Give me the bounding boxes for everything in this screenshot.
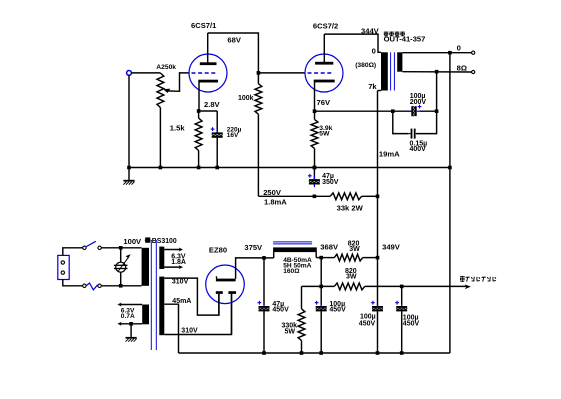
label 100k (238, 95, 254, 102)
node 0.7A ground junction (129, 322, 133, 326)
switch SW1b contact 1 (83, 284, 86, 287)
node jack ground junction (127, 166, 131, 170)
label 349V (382, 242, 401, 251)
node secondary ground junction (448, 166, 452, 170)
node lamp top (119, 246, 123, 250)
terminal 0 (472, 51, 475, 54)
wire cathode to C1 (199, 111, 218, 132)
choke lead left (264, 252, 274, 258)
capacitor C4 47u 350V (308, 168, 320, 188)
node pot bottom on ground rail (159, 166, 163, 170)
AC plug pin 1 (61, 261, 64, 264)
capacitor C1 220u 16V (211, 127, 223, 140)
wire C6 to ground (320, 311, 322, 353)
label 19mA (379, 149, 400, 158)
label 68V (227, 36, 241, 45)
ground (123, 168, 134, 185)
U1 plate (200, 62, 217, 65)
capacitor C2 100u 200V (408, 105, 421, 117)
V3 cathode lead (236, 258, 264, 279)
AC plug pin 2 (61, 271, 64, 274)
label 3W first (349, 246, 360, 253)
wire secondary 0 line (402, 52, 471, 54)
choke lead right (316, 252, 321, 258)
label 1.5k (170, 124, 186, 133)
node secondary 0 junction (448, 51, 452, 55)
svg-text:368V: 368V (320, 243, 339, 252)
svg-text:200V: 200V (410, 99, 427, 106)
svg-text:0.7A: 0.7A (121, 313, 135, 320)
wire U1 anode to 68V node (208, 33, 259, 73)
pot wiper arrowhead (163, 89, 170, 93)
svg-text:400V: 400V (410, 146, 427, 153)
resistor R 820 3W first (321, 254, 377, 261)
label 5H 50mA (283, 263, 311, 270)
triode U1 6CS7/1 envelope (189, 54, 227, 92)
svg-text:450V: 450V (403, 321, 420, 328)
label 1.8A (171, 259, 186, 266)
label 450V c7 (359, 320, 376, 327)
resistor 3.9k 5W (311, 111, 318, 167)
label 6.3V 0.7A (121, 307, 135, 314)
capacitor C6 100u 450V (315, 286, 327, 314)
label EZ80 (209, 246, 227, 255)
resistor 330k 5W (298, 286, 305, 353)
label 16V (227, 132, 239, 139)
node C1 bottom (215, 166, 219, 170)
wire HV bottom tap 310V (164, 294, 231, 335)
PT 0.7A stub bottom (117, 322, 142, 326)
V3 plate right (228, 291, 236, 294)
svg-text:19mA: 19mA (379, 149, 400, 158)
V3 cathode (216, 276, 236, 281)
OPT secondary winding (397, 52, 402, 71)
label 76V (317, 98, 331, 107)
svg-text:33k 2W: 33k 2W (337, 204, 364, 213)
label 400V (410, 146, 427, 153)
svg-text:16V: 16V (227, 132, 239, 139)
U1 cathode lead (198, 82, 200, 111)
label 33k 2W (337, 204, 364, 213)
wire HV top tap 310V (164, 278, 219, 315)
svg-text:160Ω: 160Ω (283, 268, 300, 275)
svg-text:5W: 5W (319, 131, 330, 138)
PT heater stub top (164, 248, 183, 252)
node C5 bottom (262, 351, 266, 355)
svg-text:250V: 250V (263, 188, 282, 197)
label 47u-350 (322, 173, 334, 180)
node 47u350V top (313, 166, 317, 170)
PT primary winding (142, 248, 149, 286)
label BS3100 (145, 237, 177, 245)
wire C5 to ground (263, 311, 265, 353)
svg-text:1.8mA: 1.8mA (264, 198, 287, 207)
svg-text:349V: 349V (382, 242, 401, 251)
U1 cathode (198, 80, 218, 83)
choke winding (273, 247, 317, 252)
U2 grid (dashed) (308, 72, 334, 74)
svg-text:45mA: 45mA (172, 298, 191, 305)
label 450V c8 (403, 321, 420, 328)
node 368V lower junction (319, 285, 323, 289)
label 100u c7 (360, 314, 376, 321)
label 200V (410, 99, 427, 106)
label 160ohm (283, 268, 300, 275)
label 4B-50mA (283, 257, 312, 264)
svg-text:6CS7/2: 6CS7/2 (313, 21, 338, 30)
node C2 right junction (435, 109, 439, 113)
lamp arrow (118, 254, 131, 271)
node C5 top (262, 256, 266, 260)
svg-text:3W: 3W (346, 273, 357, 280)
wire 8ohm tap vertical (436, 72, 438, 112)
svg-text:OUT-41-357: OUT-41-357 (384, 35, 426, 44)
switch SW1a contact 2 (98, 246, 101, 249)
label 5W 330k (285, 329, 296, 336)
svg-text:100V: 100V (123, 237, 142, 246)
svg-text:EZ80: EZ80 (209, 246, 227, 255)
svg-text:0: 0 (457, 43, 461, 52)
label 368V (320, 243, 339, 252)
svg-text:BS3100: BS3100 (152, 238, 177, 245)
label 2.8V (204, 100, 221, 109)
node 3.9k bottom (313, 166, 317, 170)
PT core (151, 240, 156, 350)
svg-text:5W: 5W (285, 329, 296, 336)
wire HV center tap (164, 304, 178, 353)
svg-text:344V: 344V (361, 27, 380, 36)
PT HV winding (159, 277, 164, 336)
node 1.5k bottom (197, 166, 201, 170)
PT 6.3V 0.7A winding (142, 305, 149, 325)
switch SW1b contact 2 (98, 284, 101, 287)
label 7k (368, 82, 377, 91)
label 6CS7/2 (313, 21, 338, 30)
node C6 bottom (319, 351, 323, 355)
svg-text:68V: 68V (227, 36, 241, 45)
label 0.7A (121, 313, 135, 320)
wire bottom ground rail (179, 352, 450, 354)
resistor 1.5k (195, 111, 202, 168)
svg-text:76V: 76V (317, 98, 331, 107)
label 1.8mA (264, 198, 287, 207)
wire C2 to 8ohm tap (419, 110, 436, 112)
label 250V (263, 188, 282, 197)
wire OPT primary bottom to B+ line (378, 90, 382, 92)
node other channel cap junction (400, 285, 404, 289)
label 47u-450 (272, 301, 284, 308)
label 100u (410, 93, 426, 100)
wire 368V to 820 second (302, 285, 335, 287)
label 220u (227, 126, 242, 133)
label 0 (primary) (372, 47, 376, 56)
switch SW1a lever (86, 241, 96, 246)
wire B+ 349V vertical (377, 91, 379, 307)
U1 plate lead (207, 33, 209, 63)
svg-text:A250k: A250k (156, 64, 176, 71)
wire C8 to ground (401, 311, 403, 353)
OPT core (391, 52, 395, 90)
label 450V c6 (329, 307, 346, 314)
PT heater winding 6.3V 1.8A (159, 247, 164, 269)
svg-text:350V: 350V (322, 179, 339, 186)
svg-text:(380Ω): (380Ω) (355, 62, 376, 69)
rectifier V3 EZ80 envelope (206, 265, 245, 304)
svg-text:310V: 310V (172, 279, 189, 286)
U1 grid (dashed) (192, 72, 218, 74)
switch SW1b lever (86, 283, 97, 290)
node 8ohm junction (435, 70, 439, 74)
node U1 cathode junction (197, 109, 201, 113)
resistor R 820 3W second (334, 283, 401, 290)
choke core (273, 242, 312, 244)
label other channel (460, 276, 496, 282)
wire U2 anode to OPT (324, 34, 381, 52)
capacitor C7 100u 450V (371, 301, 383, 314)
wire secondary 8ohm line (402, 71, 471, 73)
label maker Kasuga (384, 32, 405, 36)
node C2 left junction (391, 109, 395, 113)
label 6.3V heater (171, 253, 186, 260)
wire secondary 0 to ground (449, 53, 451, 168)
wire 33k to 349V (362, 195, 378, 197)
svg-text:6CS7/1: 6CS7/1 (191, 21, 217, 30)
node C8 bottom (400, 351, 404, 355)
svg-text:1.8A: 1.8A (171, 259, 186, 266)
svg-text:450V: 450V (359, 320, 376, 327)
label 5W (319, 131, 330, 138)
wire to ground 2 (130, 324, 132, 337)
svg-text:7k: 7k (368, 82, 377, 91)
wire switch to lamp node bottom (101, 285, 141, 287)
resistor 100k (255, 73, 262, 196)
wire switch to lamp node top (101, 247, 141, 249)
wire pot wiper to grid (166, 73, 189, 91)
label 310V bottom (181, 327, 198, 334)
OPT primary winding (381, 52, 388, 90)
wire 368V vertical (320, 258, 322, 287)
label 6CS7/1 (191, 21, 217, 30)
svg-text:8Ω: 8Ω (457, 63, 467, 72)
wire C7 to ground (377, 311, 379, 353)
PT 0.7A stub top (117, 303, 142, 307)
U2 plate (315, 62, 333, 65)
node 349V junction (376, 256, 380, 260)
node C4 bottom (313, 195, 317, 199)
label 0 (secondary) (457, 43, 461, 52)
wire to other channel (402, 285, 471, 290)
wire ground down right side (449, 168, 451, 354)
label 350V (322, 179, 339, 186)
wire jack to volume pot (131, 72, 160, 74)
U2 plate lead (323, 34, 325, 62)
wire plug to switch bottom (63, 280, 83, 286)
wire 68V node to U2 grid (258, 72, 305, 74)
label 820 first (348, 240, 360, 247)
label 375V (244, 243, 263, 252)
label 45mA (172, 298, 191, 305)
svg-text:1.5k: 1.5k (170, 124, 186, 133)
label 100u c8 (403, 314, 419, 321)
U2 cathode lead (314, 82, 316, 111)
label 330k (282, 323, 298, 330)
node 330k bottom (300, 351, 304, 355)
wire plug to switch top (63, 248, 83, 256)
svg-text:3W: 3W (349, 246, 360, 253)
node lamp bottom (119, 284, 123, 288)
wire 250V line (258, 195, 330, 197)
U2 cathode (314, 80, 335, 83)
node 33k right junction (376, 195, 380, 199)
svg-text:2.8V: 2.8V (204, 100, 221, 109)
label 3.9k (319, 125, 332, 132)
potentiometer A250k (157, 73, 164, 168)
label 820 second (345, 268, 357, 275)
label A250k (156, 64, 176, 71)
node C7 bottom (376, 351, 380, 355)
neon lamp NE1 (114, 248, 128, 286)
PT heater stub bottom (164, 265, 183, 269)
resistor 33k 2W (330, 193, 361, 200)
label 100V (123, 237, 142, 246)
terminal 8ohm (472, 70, 475, 73)
input jack J1 (127, 71, 132, 76)
svg-text:450V: 450V (272, 307, 289, 314)
capacitor C8 100u 450V (395, 286, 407, 314)
label OUT-41-357 (384, 35, 426, 44)
node U2 cathode junction (313, 109, 317, 113)
triode U2 6CS7/2 envelope (305, 54, 343, 92)
svg-text:375V: 375V (244, 243, 263, 252)
wire jack to ground rail (128, 75, 130, 167)
label 3W second (346, 273, 357, 280)
svg-text:100k: 100k (238, 95, 254, 102)
V3 plate left lead (218, 294, 220, 315)
AC plug P1 (58, 255, 69, 279)
svg-text:310V: 310V (181, 327, 198, 334)
svg-text:450V: 450V (329, 307, 346, 314)
wire C3 loop (393, 111, 437, 133)
wire signal ground rail (129, 167, 450, 169)
ground 2 (126, 337, 137, 342)
label 450V c5 (272, 307, 289, 314)
V3 plate left (216, 291, 223, 294)
svg-text:0: 0 (372, 47, 376, 56)
node 68V junction (257, 71, 261, 75)
capacitor C3 0.15u 400V (409, 129, 416, 139)
label 310V top (172, 279, 189, 286)
label (380ohm) (355, 62, 376, 69)
switch SW1a contact 1 (83, 246, 86, 249)
label 100u c6 (329, 301, 345, 308)
wire C1 to ground rail (216, 138, 218, 168)
V3 plate right lead (231, 294, 233, 335)
capacitor C5 47u 450V (258, 258, 270, 314)
label 8ohm (457, 63, 467, 72)
wire cathode to C2 (315, 110, 412, 112)
label 0.15u (410, 140, 428, 147)
label 344V (361, 27, 380, 36)
node choke out (319, 256, 323, 260)
